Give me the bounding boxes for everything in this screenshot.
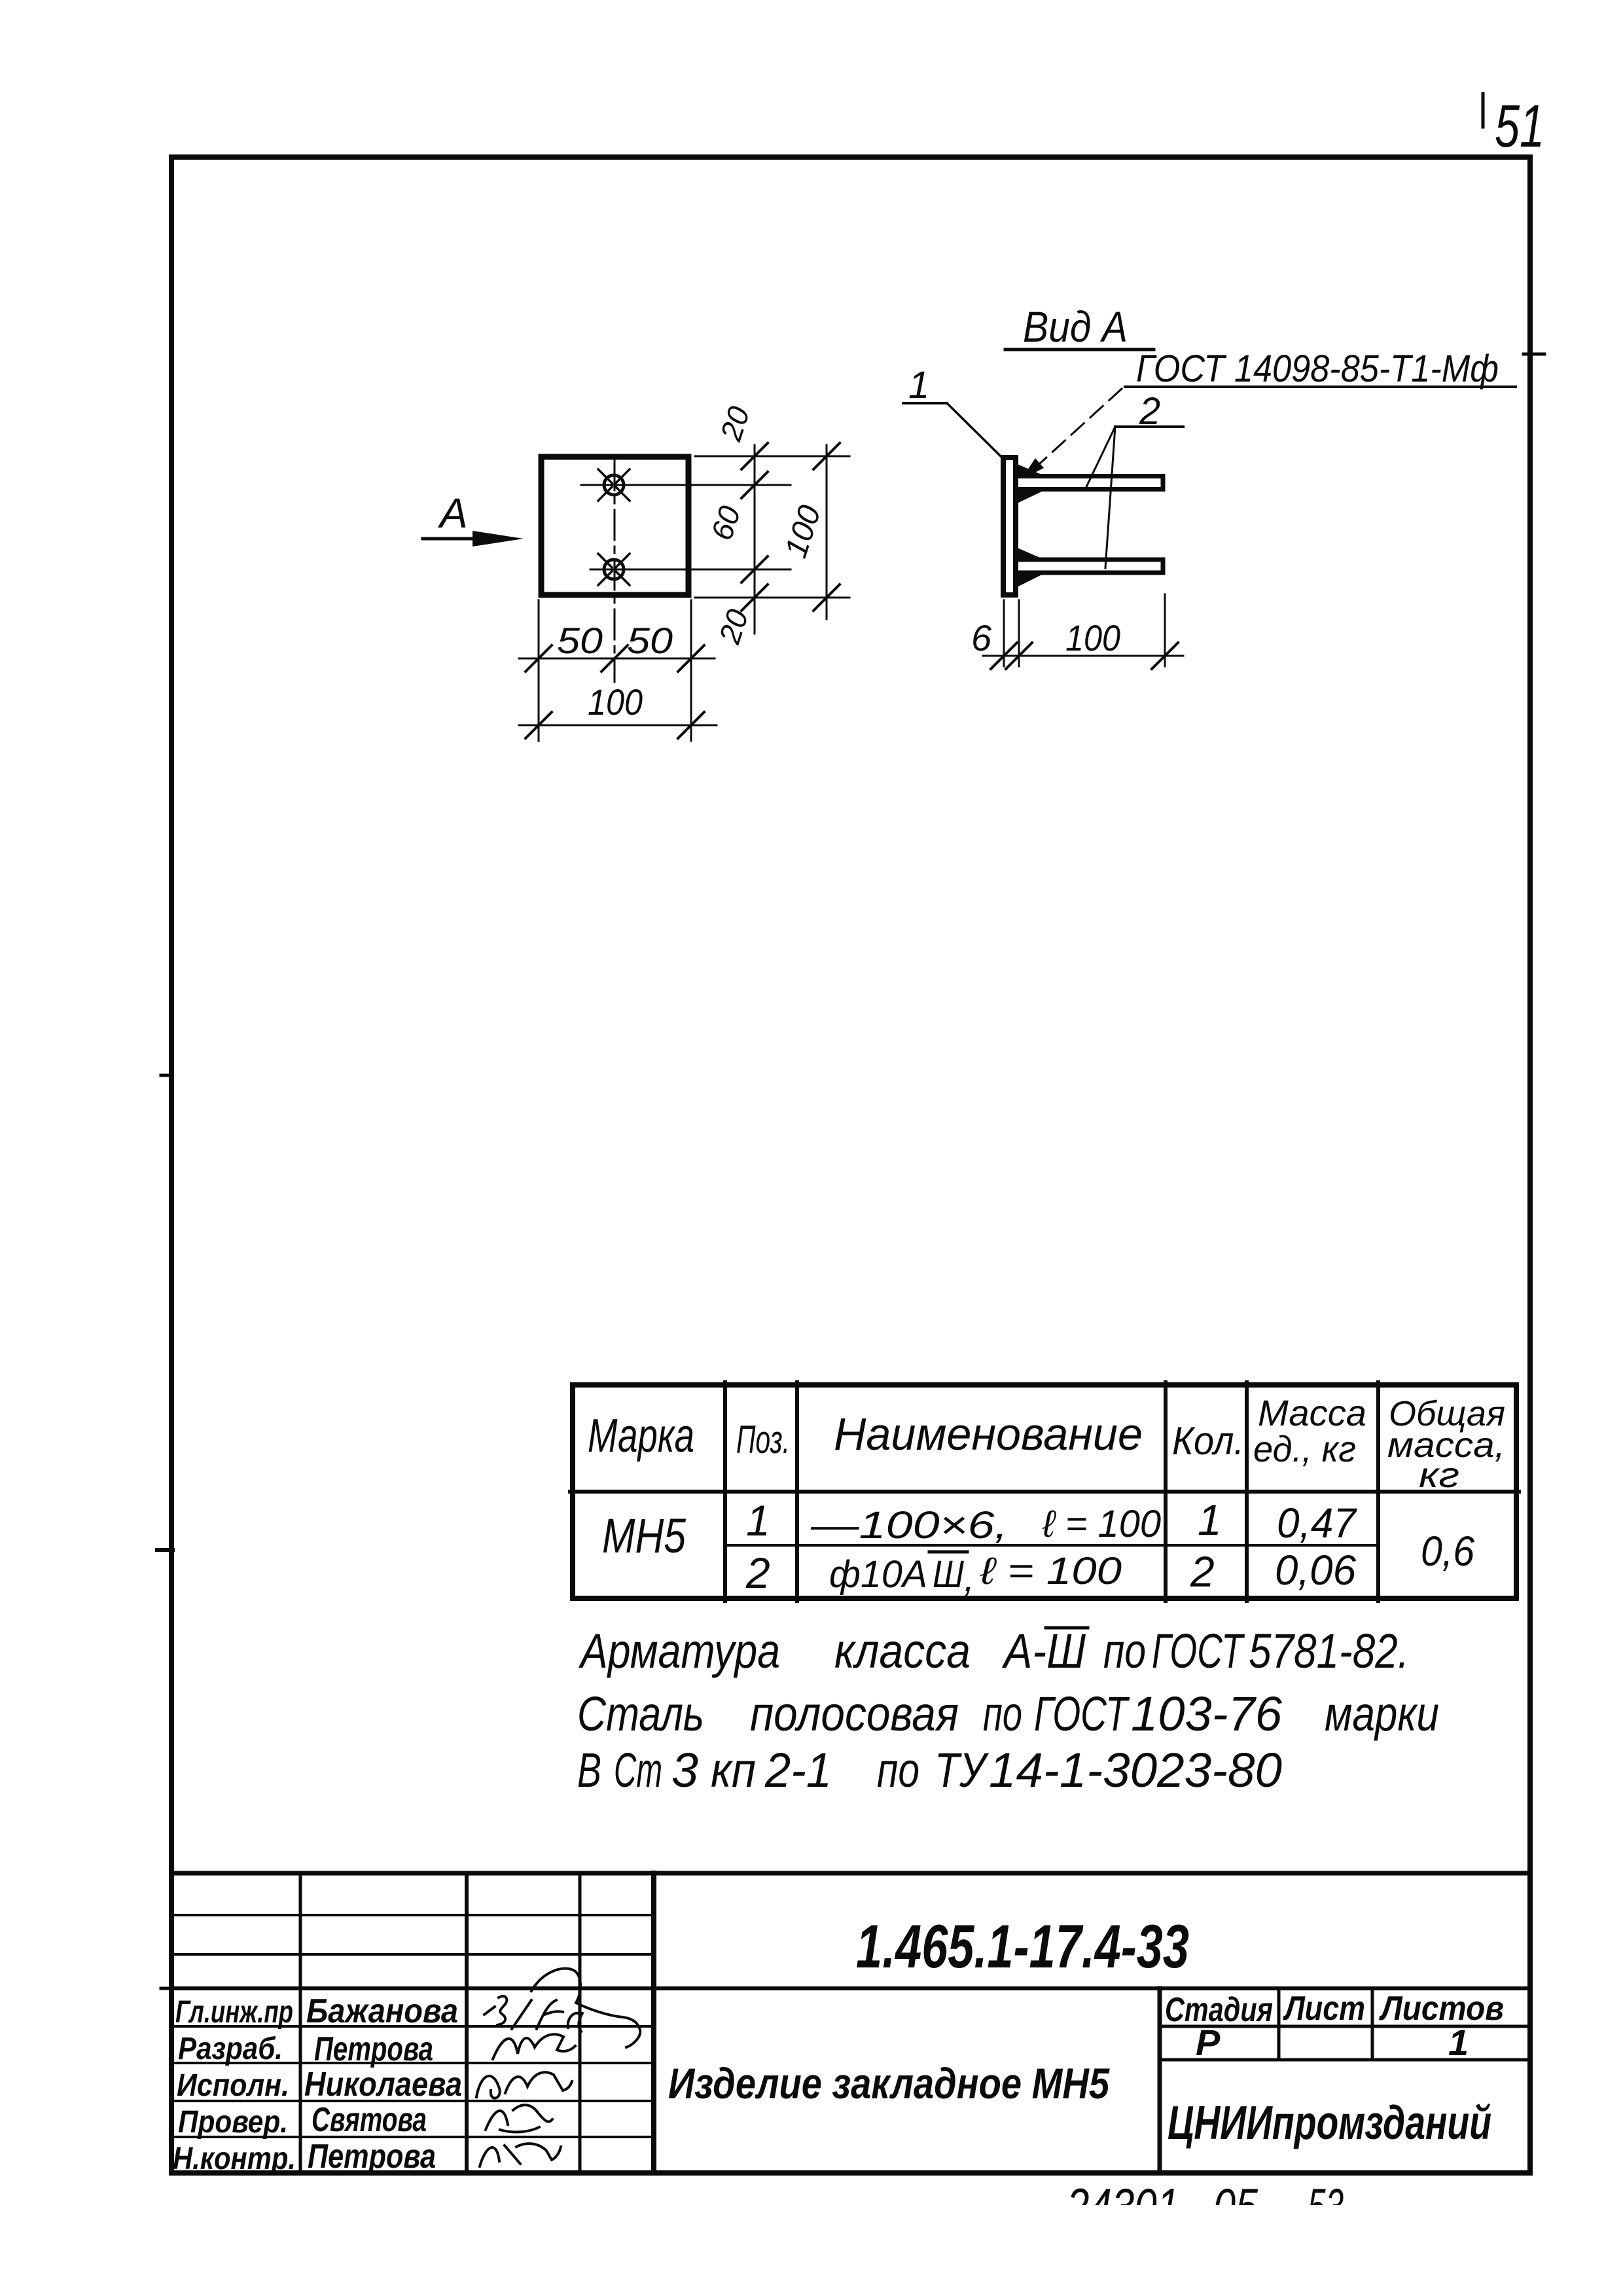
svg-text:Наименование: Наименование: [834, 1408, 1143, 1460]
table header Общая масса, кг: [1387, 1394, 1505, 1495]
note line 1: [579, 1624, 1409, 1678]
plan view: plate outline: [541, 457, 688, 595]
horizontal dimension line 100: [519, 712, 717, 738]
svg-text:100: 100: [779, 501, 828, 562]
title block grid: [171, 1873, 1530, 2173]
svg-text:ед., кг: ед., кг: [1253, 1428, 1356, 1469]
svg-text:24301: 24301: [1066, 2178, 1179, 2235]
svg-text:20: 20: [713, 402, 757, 445]
parts table grid: [570, 1382, 1519, 1601]
svg-text:марки: марки: [1325, 1687, 1439, 1741]
table header Масса ед., кг: [1253, 1392, 1366, 1469]
svg-text:103-76: 103-76: [1131, 1687, 1283, 1741]
signature Петрова 2: [480, 2144, 561, 2166]
fold tick on left border middle: [157, 1548, 173, 1552]
weld fillet rod2 upper: [1016, 547, 1044, 561]
side view: plate: [1003, 457, 1016, 595]
svg-text:20: 20: [712, 605, 755, 648]
svg-text:14-1-3023-80: 14-1-3023-80: [989, 1743, 1282, 1797]
plan view: vertical centre line: [614, 460, 616, 682]
svg-text:ГОСТ: ГОСТ: [1034, 1687, 1130, 1741]
extension line below rod end: [1164, 594, 1166, 666]
svg-text:Петрова: Петрова: [308, 2138, 436, 2176]
svg-text:0,6: 0,6: [1421, 1528, 1474, 1575]
plan view: hole 1: [598, 469, 630, 501]
svg-text:полосовая: полосовая: [750, 1687, 959, 1741]
svg-text:МН5: МН5: [602, 1509, 687, 1563]
svg-text:Лист: Лист: [1283, 1990, 1365, 2028]
svg-text:Арматура: Арматура: [579, 1624, 780, 1678]
weld fillet rod1 lower: [1016, 488, 1042, 504]
svg-text:Изделие закладное МН5: Изделие закладное МН5: [668, 2059, 1110, 2108]
extension line from plate top edge: [695, 456, 849, 457]
svg-text:2: 2: [1190, 1547, 1215, 1596]
svg-text:50: 50: [627, 620, 673, 661]
sheet number 51: [1495, 93, 1544, 160]
dim text 20 top: [713, 402, 757, 445]
plan view: hole 2: [598, 554, 630, 585]
weld fillet rod1 upper: [1016, 463, 1044, 477]
svg-text:1: 1: [1448, 2022, 1469, 2063]
svg-text:Р: Р: [1196, 2022, 1221, 2063]
svg-text:кп: кп: [711, 1743, 756, 1797]
svg-text:Исполн.: Исполн.: [177, 2068, 289, 2103]
svg-text:ЦНИИпромзданий: ЦНИИпромзданий: [1168, 2097, 1491, 2149]
svg-text:100: 100: [1065, 617, 1120, 658]
svg-text:2-1: 2-1: [764, 1743, 832, 1797]
svg-text:Вид А: Вид А: [1023, 302, 1128, 351]
svg-text:—100×6,: —100×6,: [810, 1504, 1008, 1547]
fold tick on left border upper: [161, 1074, 172, 1077]
svg-text:,: ,: [964, 1557, 974, 1600]
view title Вид А: [1005, 302, 1154, 351]
svg-text:ℓ = 100: ℓ = 100: [1042, 1503, 1161, 1545]
extension line below side plate left: [1003, 600, 1005, 666]
svg-text:100: 100: [588, 681, 643, 723]
extension line below plate right: [690, 600, 692, 741]
dim text 20 bottom: [712, 605, 755, 648]
svg-text:класса: класса: [834, 1624, 971, 1678]
svg-text:Гл.инж.пр: Гл.инж.пр: [175, 1995, 293, 2030]
svg-text:ТУ: ТУ: [935, 1743, 990, 1797]
svg-text:А-Ш: А-Ш: [1001, 1624, 1086, 1678]
svg-text:60: 60: [704, 501, 747, 544]
svg-text:1: 1: [908, 364, 929, 406]
svg-text:Ш: Ш: [933, 1553, 965, 1596]
svg-text:Сталь: Сталь: [577, 1687, 704, 1741]
svg-text:Листов: Листов: [1378, 1990, 1504, 2028]
weld fillet rod2 lower: [1016, 571, 1042, 588]
svg-text:ф10А: ф10А: [829, 1553, 927, 1596]
dim text 60: [704, 501, 747, 544]
svg-text:по: по: [1103, 1624, 1146, 1678]
svg-text:1: 1: [746, 1496, 770, 1545]
svg-text:Марка: Марка: [588, 1410, 694, 1462]
note line 2: [577, 1687, 1439, 1741]
svg-text:53: 53: [1308, 2178, 1344, 2235]
axis line through hole 2: [590, 569, 791, 571]
svg-text:Святова: Святова: [312, 2101, 427, 2139]
signature Бажанова with flourish: [484, 1969, 640, 2047]
svg-text:Провер.: Провер.: [178, 2105, 288, 2140]
signature Петрова: [493, 2034, 575, 2059]
svg-text:6: 6: [971, 617, 992, 658]
svg-text:А: А: [437, 490, 468, 537]
drawing sheet border frame: [171, 157, 1530, 2173]
svg-text:2: 2: [745, 1549, 770, 1597]
side view dimension line 6 and 100: [983, 643, 1183, 669]
svg-text:Н.контр.: Н.контр.: [173, 2142, 296, 2176]
fold tick above top border: [1482, 94, 1485, 127]
fold tick on left border at title block: [161, 1987, 173, 1990]
weld designation denominator 2: [1115, 390, 1183, 433]
vertical dimension line 100: [813, 443, 840, 619]
svg-text:Петрова: Петрова: [314, 2030, 433, 2068]
note line 3: [577, 1743, 1282, 1797]
cell name row2: [829, 1550, 1122, 1600]
fold tick on right border: [1524, 353, 1544, 356]
side view: anchor rod 2: [1018, 560, 1163, 573]
signature Святова: [486, 2105, 552, 2132]
weld leader arrow (dashed): [1021, 389, 1122, 480]
svg-text:Бажанова: Бажанова: [306, 1992, 458, 2030]
svg-text:5781-82.: 5781-82.: [1249, 1624, 1409, 1678]
svg-text:ℓ = 100: ℓ = 100: [980, 1550, 1122, 1592]
svg-text:ГОСТ: ГОСТ: [1152, 1624, 1245, 1678]
svg-text:В: В: [577, 1743, 601, 1797]
axis line through hole 1: [581, 484, 791, 486]
svg-text:05: 05: [1213, 2178, 1258, 2235]
cell name row1: [810, 1503, 1161, 1547]
item label 1: [903, 364, 1001, 456]
extension line below side plate right: [1018, 600, 1020, 666]
svg-text:Ст: Ст: [614, 1743, 662, 1797]
cut-off archive number 24301 05 53: [1066, 2178, 1344, 2235]
signature Николаева: [476, 2072, 572, 2098]
svg-text:кг: кг: [1419, 1456, 1459, 1495]
svg-text:51: 51: [1495, 93, 1544, 160]
dim text 100 vertical: [779, 501, 828, 562]
horizontal dimension line 50+50: [519, 645, 715, 672]
svg-text:Разраб.: Разраб.: [178, 2032, 283, 2066]
svg-text:50: 50: [557, 620, 603, 661]
svg-text:1.465.1-17.4-33: 1.465.1-17.4-33: [856, 1912, 1189, 1981]
extension line below plate left: [538, 600, 540, 741]
vertical dimension line 20/60/20: [741, 443, 768, 634]
svg-text:Поз.: Поз.: [736, 1418, 790, 1462]
svg-text:Кол.: Кол.: [1172, 1419, 1244, 1463]
svg-text:0,06: 0,06: [1275, 1547, 1356, 1594]
svg-text:ГОСТ 14098-85-Т1-Мф: ГОСТ 14098-85-Т1-Мф: [1136, 348, 1499, 390]
svg-text:Николаева: Николаева: [304, 2066, 462, 2104]
svg-text:1: 1: [1198, 1496, 1222, 1544]
view arrow A label: [423, 490, 524, 547]
svg-text:Масса: Масса: [1258, 1392, 1366, 1433]
weld designation ГОСТ 14098-85-Т1-Мф: [1125, 348, 1516, 390]
side view: anchor rod 1: [1018, 476, 1163, 490]
svg-text:3: 3: [671, 1743, 698, 1797]
item label 2 leaders: [1085, 427, 1115, 568]
svg-text:по: по: [877, 1743, 919, 1797]
svg-text:0,47: 0,47: [1277, 1499, 1357, 1547]
svg-text:по: по: [983, 1687, 1022, 1741]
extension line from plate bottom edge: [695, 597, 849, 599]
